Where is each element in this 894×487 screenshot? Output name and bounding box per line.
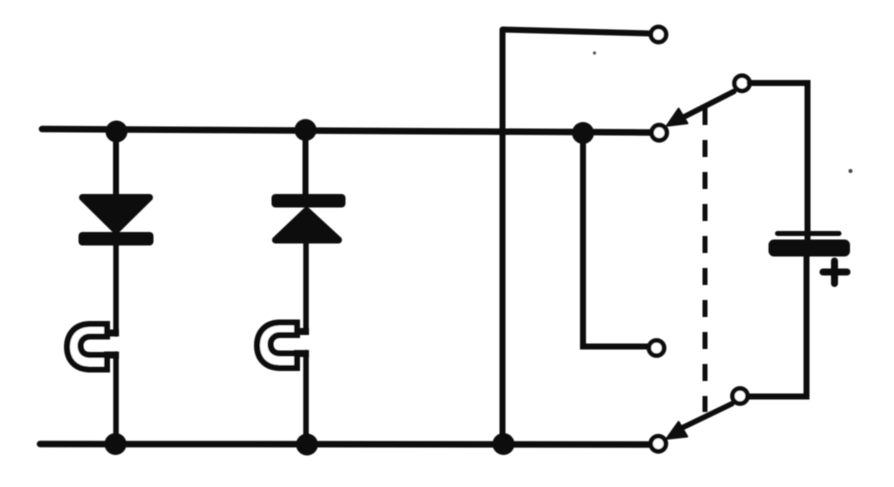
diode D2 cathode bar (top) <box>272 194 346 208</box>
diode D2 triangle (pointing up) <box>276 211 339 241</box>
wire: branch 1 upper (rail to diode D1) <box>113 131 119 195</box>
wire: branch 2 upper (rail to diode D2) <box>303 131 309 195</box>
wire: bottom rail <box>40 441 649 448</box>
switch S1a arrowhead <box>667 109 688 126</box>
switch S1a contact circle (end of top rail) <box>652 125 667 140</box>
diode D1 cathode bar <box>79 232 154 246</box>
wire: top terminal lead <box>503 30 651 34</box>
wire: branch 1 lower (lamp L1 to bottom rail) <box>113 354 119 444</box>
dashed mechanical linkage between S1a and S1b <box>703 108 708 412</box>
terminal T1 (open circle, top) <box>651 27 666 42</box>
wire: branch 2 middle (D2 to lamp L2) <box>303 243 309 332</box>
junction dot: top rail / branch 2 <box>295 119 317 141</box>
switch S1b arm <box>678 404 732 430</box>
wire: battery negative to S1b pole <box>748 256 807 397</box>
battery B1 short thick plate <box>769 240 851 257</box>
junction dot: top rail / middle branch <box>572 122 594 144</box>
speck (scan artifact) near centre top <box>593 51 596 54</box>
switch S1b pole circle <box>732 388 747 403</box>
battery B1 long thin plate <box>778 231 840 236</box>
lamp L2 (hollow C symbol) <box>257 323 297 369</box>
terminal T2 (open circle, middle) <box>649 340 664 355</box>
wire: top rail <box>42 129 650 133</box>
junction dot: bottom rail / center-tap vertical <box>493 433 515 455</box>
wire: middle branch vertical + lead to terminal T2 <box>583 133 648 347</box>
switch S1b arrowhead <box>667 422 688 439</box>
speck (scan artifact) right side <box>849 169 853 173</box>
wire: S1a pole to battery positive <box>750 83 808 240</box>
switch S1a pole circle <box>734 76 749 91</box>
wire: center-tap vertical (top terminal to bottom rail) <box>500 31 506 445</box>
switch S1b contact circle (end of bottom rail) <box>651 436 666 451</box>
wire: branch 2 lower (lamp L2 to bottom rail) <box>303 353 309 445</box>
lamp L1 (hollow C symbol) <box>67 324 107 370</box>
junction dot: bottom rail / branch 2 <box>296 434 318 456</box>
switch S1a arm <box>676 92 734 122</box>
junction dot: top rail / branch 1 <box>106 121 128 143</box>
diode D1 triangle (pointing down) <box>83 198 150 231</box>
wire: branch 1 middle (D1 to lamp L1) <box>113 245 119 334</box>
battery B1 plus sign <box>823 261 847 284</box>
junction dot: bottom rail / branch 1 <box>105 433 127 455</box>
